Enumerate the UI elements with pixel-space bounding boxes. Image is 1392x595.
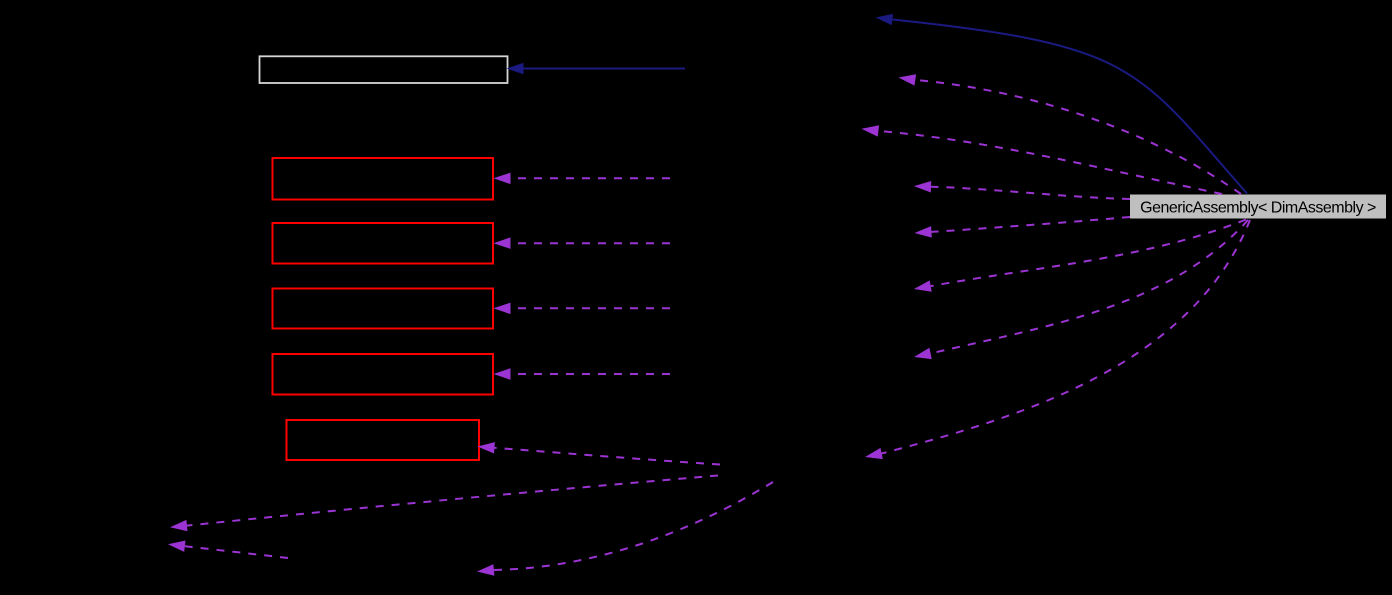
edge: dashed usage curve H4 to bottom-middle xyxy=(477,482,773,576)
edge: dashed usage curve F8 xyxy=(865,220,1250,459)
edge: dashed usage curve H1 into R5 xyxy=(478,442,721,464)
svg-text:GenericAssembly< DimAssembly >: GenericAssembly< DimAssembly > xyxy=(1140,200,1376,217)
edge: dashed usage curve F3 xyxy=(862,125,1223,194)
edge: dashed usage curve F6 xyxy=(914,220,1246,292)
edge: dashed usage curve F4 xyxy=(914,181,1130,199)
edge: dashed usage curve F2 xyxy=(899,74,1242,194)
node: red class box R5 xyxy=(287,420,480,460)
node: GenericAssembly< DimAssembly > (current node, grey) xyxy=(1130,195,1386,219)
node: red class box R3 xyxy=(273,289,494,329)
node: white-bordered class box (top left) xyxy=(260,56,508,83)
edge: dashed usage line H2 to bottom-left xyxy=(170,476,718,532)
edge: dashed usage line H3 to bottom-left xyxy=(168,541,288,559)
node: red class box R1 xyxy=(273,158,494,200)
edge: blue inheritance arrow into white box xyxy=(507,63,686,74)
edge: dashed usage arrow into R3 xyxy=(494,303,671,315)
edge: dashed usage arrow into R4 xyxy=(494,368,671,380)
edge: dashed usage arrow into R2 xyxy=(494,237,671,249)
edge: dashed usage curve F7 xyxy=(914,220,1248,359)
edge: dashed usage curve F5 xyxy=(915,217,1131,238)
edge: dashed usage arrow into R1 xyxy=(494,173,671,185)
edge: blue inheritance curve from GenericAssembly to top-left xyxy=(876,14,1248,194)
node: red class box R2 xyxy=(273,223,494,264)
node: red class box R4 xyxy=(273,354,494,395)
